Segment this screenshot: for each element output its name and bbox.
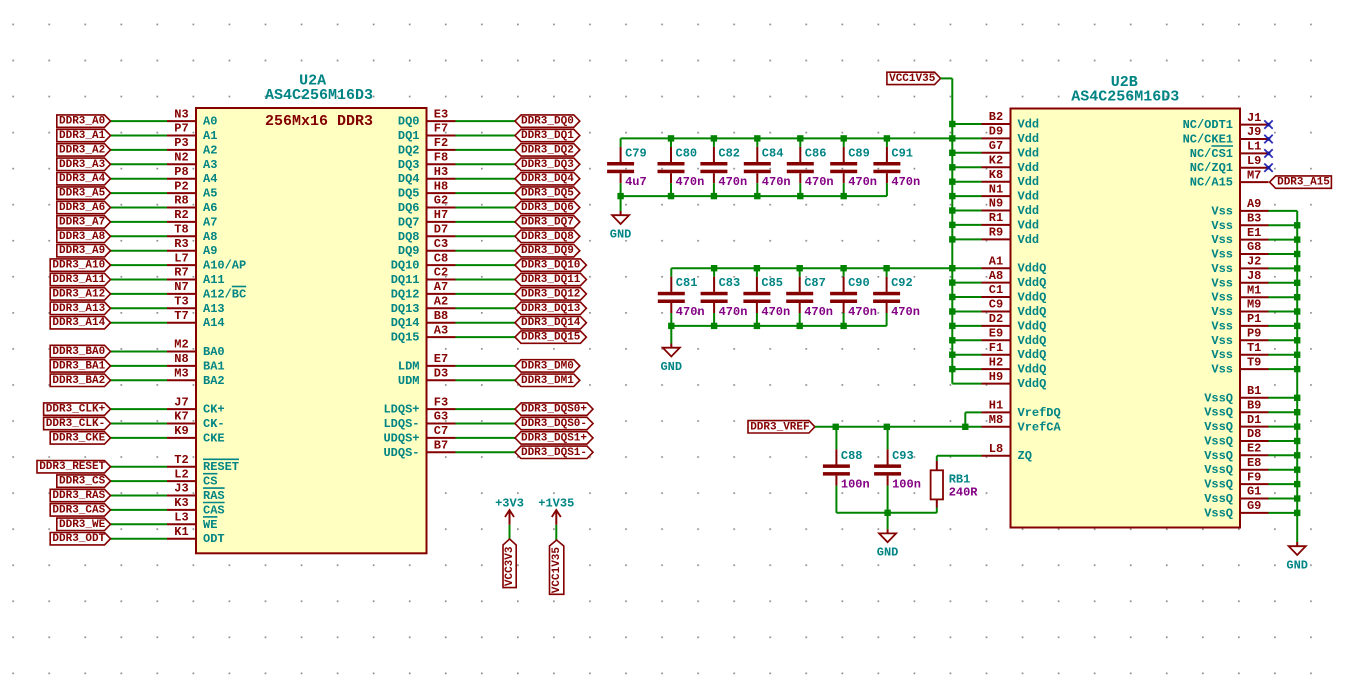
capacitor C85 xyxy=(743,268,770,326)
svg-text:C93: C93 xyxy=(892,449,914,463)
U2A pin N7 A12/BC xyxy=(167,280,246,301)
svg-text:DQ15: DQ15 xyxy=(391,331,420,345)
svg-text:BA1: BA1 xyxy=(203,359,225,373)
svg-text:DDR3_A4: DDR3_A4 xyxy=(59,173,106,185)
U2A pin F7 DQ1 xyxy=(398,122,456,143)
U2B pin K8 Vdd xyxy=(982,168,1040,189)
wire xyxy=(1269,282,1298,284)
net label DDR3_A8 xyxy=(57,230,111,243)
net label DDR3_A3 xyxy=(57,158,111,171)
U2A pin P2 A5 xyxy=(167,179,217,200)
U2A pin G3 LDQS- xyxy=(383,410,455,431)
wire xyxy=(456,207,516,209)
svg-text:DDR3_DQ13: DDR3_DQ13 xyxy=(521,303,581,315)
svg-text:A3: A3 xyxy=(434,323,448,337)
U2A pin P7 A1 xyxy=(167,122,217,143)
svg-text:DDR3_A5: DDR3_A5 xyxy=(59,188,106,200)
wire ZQ xyxy=(937,455,982,457)
junction xyxy=(1294,251,1300,257)
net label DDR3_DQS1- xyxy=(515,446,593,459)
wire xyxy=(111,264,168,266)
svg-text:VssQ: VssQ xyxy=(1204,478,1233,492)
no-connect X xyxy=(1264,149,1272,157)
svg-text:R9: R9 xyxy=(989,226,1003,240)
wire xyxy=(456,250,516,252)
svg-text:DDR3_DQ6: DDR3_DQ6 xyxy=(521,202,574,214)
U2A pin P3 A2 xyxy=(167,136,217,157)
svg-text:VddQ: VddQ xyxy=(1018,348,1047,362)
junction xyxy=(668,135,674,141)
svg-text:DDR3_DQ12: DDR3_DQ12 xyxy=(521,288,580,300)
svg-text:R7: R7 xyxy=(174,266,188,280)
junction xyxy=(949,193,955,199)
svg-text:G9: G9 xyxy=(1247,499,1261,513)
net label DDR3_A1 xyxy=(57,129,111,142)
junction xyxy=(711,323,717,329)
svg-text:DDR3_ODT: DDR3_ODT xyxy=(52,533,105,545)
svg-text:VCC1V35: VCC1V35 xyxy=(889,73,936,85)
svg-text:Vdd: Vdd xyxy=(1018,118,1040,132)
net label DDR3_A15 xyxy=(1270,176,1332,189)
svg-text:B3: B3 xyxy=(1247,212,1261,226)
svg-text:DQ8: DQ8 xyxy=(398,230,420,244)
U2A pin C7 UDQS+ xyxy=(383,424,455,445)
net label DDR3_CLK+ xyxy=(44,403,111,416)
power symbol +3V3 xyxy=(495,497,524,525)
net label DDR3_VREF xyxy=(748,421,815,434)
svg-text:VddQ: VddQ xyxy=(1018,334,1047,348)
svg-text:T1: T1 xyxy=(1247,341,1261,355)
svg-text:DDR3_A3: DDR3_A3 xyxy=(59,159,106,171)
svg-text:N3: N3 xyxy=(174,107,188,121)
svg-text:K3: K3 xyxy=(174,496,188,510)
U2A pin H3 DQ4 xyxy=(398,165,456,186)
svg-text:DDR3_DM0: DDR3_DM0 xyxy=(521,360,574,372)
svg-text:B8: B8 xyxy=(434,309,448,323)
wire xyxy=(111,408,168,410)
no-connect X xyxy=(1264,135,1272,143)
U2B pin F9 VssQ xyxy=(1204,470,1268,491)
junction xyxy=(1294,481,1300,487)
net label DDR3_A11 xyxy=(50,273,110,286)
svg-text:DDR3_DQ5: DDR3_DQ5 xyxy=(521,188,574,200)
capacitor C91 xyxy=(873,138,900,196)
svg-text:470n: 470n xyxy=(761,305,790,319)
net label DDR3_CAS xyxy=(50,504,110,517)
svg-text:Vdd: Vdd xyxy=(1018,233,1040,247)
svg-text:LDM: LDM xyxy=(398,359,420,373)
svg-text:Vdd: Vdd xyxy=(1018,146,1040,160)
wire xyxy=(952,195,981,197)
svg-text:VssQ: VssQ xyxy=(1204,506,1233,520)
svg-text:DDR3_DQ8: DDR3_DQ8 xyxy=(521,231,574,243)
vref bottom bus wire xyxy=(836,512,936,514)
svg-text:DQ11: DQ11 xyxy=(391,273,420,287)
junction xyxy=(949,366,955,372)
svg-text:D2: D2 xyxy=(989,312,1003,326)
U2A pin F3 LDQS+ xyxy=(383,395,455,416)
svg-text:E9: E9 xyxy=(989,327,1003,341)
svg-text:J2: J2 xyxy=(1247,255,1261,269)
capacitor C83 xyxy=(701,268,728,326)
net label DDR3_A6 xyxy=(57,201,111,214)
net label DDR3_CKE xyxy=(50,432,110,445)
svg-text:DQ13: DQ13 xyxy=(391,302,420,316)
U2A pin F8 DQ3 xyxy=(398,151,456,172)
svg-text:BA2: BA2 xyxy=(203,374,225,388)
svg-text:C89: C89 xyxy=(848,146,870,160)
svg-text:240R: 240R xyxy=(949,485,979,499)
wire xyxy=(456,293,516,295)
svg-text:J7: J7 xyxy=(174,395,188,409)
svg-text:DDR3_DQS0-: DDR3_DQS0- xyxy=(521,418,587,430)
wire xyxy=(456,149,516,151)
svg-text:WE: WE xyxy=(203,518,217,532)
junction xyxy=(1294,222,1300,228)
wire xyxy=(555,525,557,540)
svg-text:VssQ: VssQ xyxy=(1204,435,1233,449)
junction xyxy=(949,323,955,329)
svg-text:A2: A2 xyxy=(434,295,448,309)
svg-text:UDQS-: UDQS- xyxy=(383,446,419,460)
wire xyxy=(1269,397,1298,399)
svg-text:A5: A5 xyxy=(203,187,217,201)
svg-text:A9: A9 xyxy=(1247,197,1261,211)
svg-text:NC/ZQ1: NC/ZQ1 xyxy=(1190,161,1233,175)
net label DDR3_CLK- xyxy=(44,417,111,430)
svg-text:A14: A14 xyxy=(203,316,225,330)
U2B pin J9 NC/CKE1 xyxy=(1183,125,1269,146)
U2A pin J7 CK+ xyxy=(167,395,225,416)
svg-text:Vdd: Vdd xyxy=(1018,161,1040,175)
junction xyxy=(1294,308,1300,314)
svg-text:E8: E8 xyxy=(1247,456,1261,470)
svg-text:DDR3_DQ7: DDR3_DQ7 xyxy=(521,216,574,228)
svg-text:H3: H3 xyxy=(434,165,448,179)
wire xyxy=(952,354,981,356)
svg-text:B7: B7 xyxy=(434,439,448,453)
U2B pin R9 Vdd xyxy=(982,226,1040,247)
junction xyxy=(841,135,847,141)
svg-text:DQ1: DQ1 xyxy=(398,129,420,143)
net label DDR3_DQ9 xyxy=(515,245,580,258)
junction xyxy=(949,308,955,314)
svg-text:DDR3_CS: DDR3_CS xyxy=(59,476,106,488)
svg-text:K7: K7 xyxy=(174,410,188,424)
svg-text:470n: 470n xyxy=(676,175,705,189)
svg-text:A8: A8 xyxy=(203,230,217,244)
svg-text:T2: T2 xyxy=(174,453,188,467)
net label DDR3_DQ1 xyxy=(515,129,580,142)
net label DDR3_WE xyxy=(57,518,111,531)
svg-text:N2: N2 xyxy=(174,151,188,165)
wire xyxy=(1269,454,1298,456)
svg-text:T9: T9 xyxy=(1247,355,1261,369)
svg-text:NC/CKE1: NC/CKE1 xyxy=(1183,133,1233,147)
capacitor C79 xyxy=(607,138,634,196)
wire xyxy=(952,166,981,168)
svg-text:DDR3_DQ1: DDR3_DQ1 xyxy=(521,130,574,142)
svg-text:A1: A1 xyxy=(989,254,1003,268)
svg-text:VCC1V35: VCC1V35 xyxy=(551,547,563,594)
U2B pin L8 ZQ xyxy=(982,442,1032,463)
svg-text:Vdd: Vdd xyxy=(1018,175,1040,189)
U2A pin C2 DQ11 xyxy=(391,266,456,287)
svg-text:NC/CS1: NC/CS1 xyxy=(1190,147,1233,161)
capacitor C87 xyxy=(786,268,813,326)
svg-text:H9: H9 xyxy=(989,370,1003,384)
wire xyxy=(111,538,168,540)
svg-text:VrefCA: VrefCA xyxy=(1018,420,1062,434)
svg-text:H7: H7 xyxy=(434,208,448,222)
wire xyxy=(1269,339,1298,341)
net label DDR3_DQS0- xyxy=(515,417,593,430)
svg-text:DDR3_CAS: DDR3_CAS xyxy=(52,504,105,516)
junction xyxy=(1294,423,1300,429)
U2B pin M8 VrefCA xyxy=(982,413,1062,434)
junction xyxy=(949,236,955,242)
svg-text:DDR3_DQ3: DDR3_DQ3 xyxy=(521,159,574,171)
wire xyxy=(815,426,982,428)
svg-text:C84: C84 xyxy=(762,146,784,160)
svg-text:GND: GND xyxy=(660,360,682,374)
svg-text:DDR3_VREF: DDR3_VREF xyxy=(750,421,809,433)
svg-text:ZQ: ZQ xyxy=(1018,449,1032,463)
svg-text:F9: F9 xyxy=(1247,470,1261,484)
svg-text:M2: M2 xyxy=(174,338,188,352)
svg-text:G7: G7 xyxy=(989,139,1003,153)
junction xyxy=(949,279,955,285)
wire xyxy=(952,325,981,327)
svg-text:C81: C81 xyxy=(676,276,698,290)
U2A pin E7 LDM xyxy=(398,352,456,373)
junction xyxy=(949,164,955,170)
junction xyxy=(949,222,955,228)
wire xyxy=(456,178,516,180)
svg-text:CK+: CK+ xyxy=(203,403,225,417)
junction xyxy=(884,510,890,516)
junction xyxy=(949,179,955,185)
svg-text:VssQ: VssQ xyxy=(1204,420,1233,434)
U2B pin G1 VssQ xyxy=(1204,485,1268,506)
junction xyxy=(949,135,955,141)
U2A pin R8 A6 xyxy=(167,194,217,215)
junction xyxy=(1294,495,1300,501)
svg-text:C80: C80 xyxy=(676,146,698,160)
junction xyxy=(949,207,955,213)
junction xyxy=(841,193,847,199)
svg-text:Vss: Vss xyxy=(1211,262,1233,276)
wire xyxy=(456,336,516,338)
svg-text:GND: GND xyxy=(610,228,632,242)
wire xyxy=(456,365,516,367)
junction xyxy=(949,265,955,271)
wire xyxy=(1269,498,1298,500)
svg-text:M3: M3 xyxy=(174,367,188,381)
capacitor C88 xyxy=(823,427,850,513)
svg-text:100n: 100n xyxy=(892,478,921,492)
svg-text:M1: M1 xyxy=(1247,283,1261,297)
wire xyxy=(456,437,516,439)
svg-text:UDM: UDM xyxy=(398,374,420,388)
svg-text:VddQ: VddQ xyxy=(1018,291,1047,305)
wire xyxy=(111,466,168,468)
svg-text:DDR3_DM1: DDR3_DM1 xyxy=(521,375,574,387)
svg-text:470n: 470n xyxy=(848,305,877,319)
svg-text:DDR3_DQ15: DDR3_DQ15 xyxy=(521,332,581,344)
svg-text:4u7: 4u7 xyxy=(625,175,647,189)
wire xyxy=(111,307,168,309)
junction xyxy=(797,323,803,329)
svg-text:P9: P9 xyxy=(1247,327,1261,341)
svg-text:C91: C91 xyxy=(891,146,913,160)
svg-text:D7: D7 xyxy=(434,223,448,237)
wire xyxy=(456,264,516,266)
svg-text:470n: 470n xyxy=(891,175,920,189)
net label DDR3_A5 xyxy=(57,187,111,200)
svg-text:L9: L9 xyxy=(1247,154,1261,168)
U2B pin A1 VddQ xyxy=(982,254,1047,275)
svg-text:AS4C256M16D3: AS4C256M16D3 xyxy=(1071,88,1179,105)
wire to ground row1 xyxy=(620,196,622,211)
svg-text:C8: C8 xyxy=(434,251,448,265)
svg-text:DDR3_BA0: DDR3_BA0 xyxy=(52,346,105,358)
U2B pin D1 VssQ xyxy=(1204,413,1268,434)
U2A pin N8 BA1 xyxy=(167,352,225,373)
svg-text:AS4C256M16D3: AS4C256M16D3 xyxy=(265,87,373,104)
svg-text:VCC3V3: VCC3V3 xyxy=(504,546,516,586)
svg-text:D9: D9 xyxy=(989,125,1003,139)
svg-text:VssQ: VssQ xyxy=(1204,463,1233,477)
svg-text:100n: 100n xyxy=(841,478,870,492)
svg-text:C85: C85 xyxy=(761,276,783,290)
svg-text:Vss: Vss xyxy=(1211,334,1233,348)
svg-text:470n: 470n xyxy=(804,305,833,319)
net label DDR3_A4 xyxy=(57,173,111,186)
U2B pin B1 VssQ xyxy=(1204,384,1268,405)
wire xyxy=(952,137,981,139)
junction xyxy=(949,352,955,358)
net label DDR3_DQ2 xyxy=(515,144,580,157)
wire xyxy=(952,339,981,341)
net label DDR3_DQ15 xyxy=(515,331,586,344)
svg-text:J1: J1 xyxy=(1247,111,1261,125)
wire xyxy=(952,383,981,385)
U2B pin H9 VddQ xyxy=(982,370,1047,391)
junction xyxy=(1294,438,1300,444)
svg-text:DQ2: DQ2 xyxy=(398,143,420,157)
svg-text:G2: G2 xyxy=(434,194,448,208)
svg-text:A8: A8 xyxy=(989,269,1003,283)
wire xyxy=(1269,253,1298,255)
junction xyxy=(668,323,674,329)
svg-text:H8: H8 xyxy=(434,179,448,193)
net label DDR3_A10 xyxy=(50,259,110,272)
svg-text:DQ5: DQ5 xyxy=(398,187,420,201)
capacitor C93 xyxy=(874,427,901,513)
U2A pin H8 DQ5 xyxy=(398,179,456,200)
svg-text:DDR3_RAS: DDR3_RAS xyxy=(52,490,105,502)
svg-text:RAS: RAS xyxy=(203,489,225,503)
wire xyxy=(456,221,516,223)
svg-text:DDR3_A6: DDR3_A6 xyxy=(59,202,105,214)
net label DDR3_A2 xyxy=(57,144,111,157)
svg-text:DDR3_DQS1+: DDR3_DQS1+ xyxy=(521,432,587,444)
capacitor C81 xyxy=(658,268,685,326)
svg-text:DQ0: DQ0 xyxy=(398,115,420,129)
wire xyxy=(1269,483,1298,485)
junction xyxy=(754,265,760,271)
no-connect X xyxy=(1264,164,1272,172)
net label DDR3_DQ7 xyxy=(515,216,580,229)
svg-text:R3: R3 xyxy=(174,237,188,251)
capacitor C92 xyxy=(873,268,900,326)
svg-text:C2: C2 xyxy=(434,266,448,280)
junction xyxy=(1294,452,1300,458)
svg-text:DDR3_DQ10: DDR3_DQ10 xyxy=(521,260,580,272)
svg-text:Vss: Vss xyxy=(1211,291,1233,305)
svg-text:DQ12: DQ12 xyxy=(391,287,420,301)
svg-text:CK-: CK- xyxy=(203,417,225,431)
net label DDR3_DQ11 xyxy=(515,273,586,286)
svg-text:A6: A6 xyxy=(203,201,217,215)
U2A pin T7 A14 xyxy=(167,309,225,330)
U2B pin E8 VssQ xyxy=(1204,456,1268,477)
wire xyxy=(111,120,168,122)
wire xyxy=(111,221,168,223)
capacitor C90 xyxy=(830,268,857,326)
svg-text:DDR3_BA1: DDR3_BA1 xyxy=(52,360,105,372)
svg-text:P7: P7 xyxy=(174,122,188,136)
wire xyxy=(952,282,981,284)
wire xyxy=(952,210,981,212)
cap row2 top bus wire xyxy=(671,267,952,269)
svg-text:M8: M8 xyxy=(989,413,1003,427)
junction xyxy=(1294,265,1300,271)
junction xyxy=(884,424,890,430)
U2A pin T3 A13 xyxy=(167,295,225,316)
wire xyxy=(456,135,516,137)
svg-text:T3: T3 xyxy=(174,295,188,309)
net label DDR3_BA0 xyxy=(50,345,110,358)
svg-text:M9: M9 xyxy=(1247,298,1261,312)
junction xyxy=(1294,467,1300,473)
wire xyxy=(952,296,981,298)
wire xyxy=(111,135,168,137)
svg-text:Vss: Vss xyxy=(1211,363,1233,377)
svg-text:DQ9: DQ9 xyxy=(398,244,420,258)
junction xyxy=(754,193,760,199)
svg-text:Vss: Vss xyxy=(1211,248,1233,262)
svg-text:J8: J8 xyxy=(1247,269,1261,283)
net label DDR3_A7 xyxy=(57,216,111,229)
U2B pin D2 VddQ xyxy=(982,312,1047,333)
junction xyxy=(754,323,760,329)
wire xyxy=(952,181,981,183)
svg-text:B1: B1 xyxy=(1247,384,1261,398)
svg-text:UDQS+: UDQS+ xyxy=(383,431,419,445)
U2A pin K1 ODT xyxy=(167,525,225,546)
svg-text:470n: 470n xyxy=(848,175,877,189)
svg-text:DDR3_DQ11: DDR3_DQ11 xyxy=(521,274,581,286)
svg-text:C1: C1 xyxy=(989,283,1003,297)
wire xyxy=(952,238,981,240)
U2A pin N3 A0 xyxy=(167,107,217,128)
U2B pin P9 Vss xyxy=(1211,327,1268,348)
svg-text:F3: F3 xyxy=(434,395,448,409)
U2B pin E9 VddQ xyxy=(982,327,1047,348)
svg-text:CS: CS xyxy=(203,475,217,489)
